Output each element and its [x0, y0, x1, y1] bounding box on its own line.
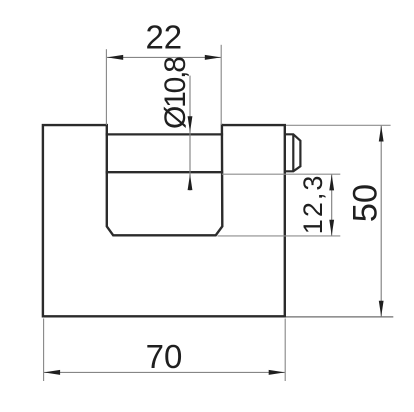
dim 50 extension line bottom — [286, 316, 393, 318]
dim 12,3 extension line bottom — [218, 235, 341, 237]
dim 50 arrow down — [379, 301, 384, 317]
slot (shackle notch) — [107, 124, 223, 235]
dim 70 extension line right — [284, 319, 286, 382]
svg-text:50: 50 — [347, 184, 385, 222]
diameter dim arrow up — [188, 174, 193, 190]
dim 22 arrow left — [107, 55, 123, 60]
bolt end protrusion — [285, 134, 301, 171]
svg-text:22: 22 — [145, 19, 182, 56]
dim 12,3 arrow up — [329, 175, 334, 191]
dim 22 dimension line — [107, 56, 221, 58]
dim 70 extension line left — [43, 319, 45, 382]
dim 22 label — [145, 19, 182, 56]
dim 70 dimension line — [44, 371, 285, 373]
dim 70 arrow right — [269, 370, 285, 375]
dim 50 label — [347, 184, 385, 222]
dim diameter 10,8 label — [159, 57, 192, 129]
dim 50 dimension line — [380, 126, 382, 317]
dim 50 extension line top — [286, 124, 391, 126]
padlock body outline — [43, 125, 285, 316]
dim 70 label — [146, 338, 183, 375]
dim 12,3 arrow down — [329, 220, 334, 236]
dim 12,3 label — [298, 174, 328, 235]
dim 22 extension line left — [105, 49, 107, 125]
diameter dim arrow down — [188, 116, 193, 132]
dim 22 extension line right — [220, 45, 222, 125]
svg-text:12,3: 12,3 — [298, 174, 328, 235]
leader line of diameter dim — [189, 76, 191, 191]
bolt top edge — [106, 133, 224, 135]
dim 22 arrow right — [205, 55, 221, 60]
dim 70 arrow left — [44, 370, 60, 375]
bolt bottom edge — [106, 171, 224, 173]
dim 12,3 dimension line — [331, 175, 333, 236]
dim 12,3 extension line top — [222, 173, 340, 175]
svg-text:70: 70 — [146, 338, 183, 375]
dim 50 arrow up — [379, 126, 384, 142]
svg-text:Ø10,8: Ø10,8 — [159, 57, 192, 129]
